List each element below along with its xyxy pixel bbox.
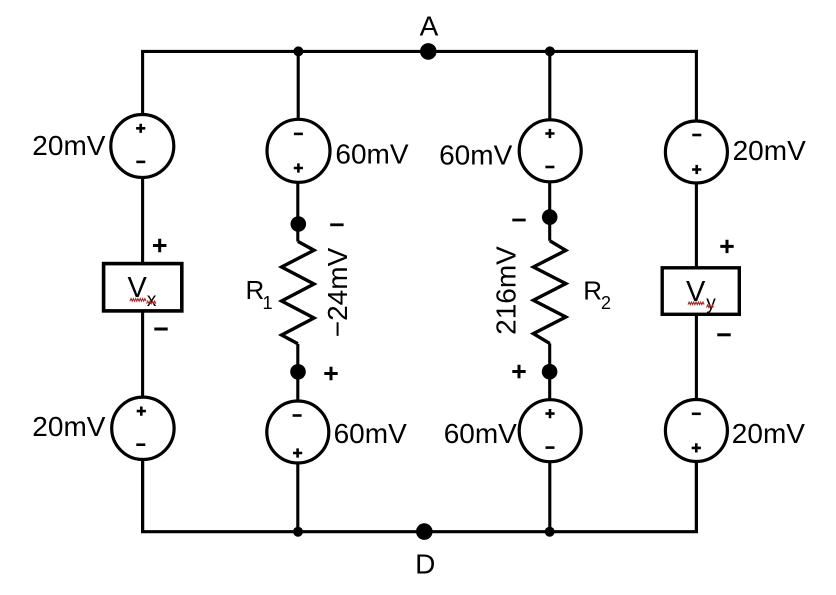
junction dot: top of R2 branch (545, 46, 555, 56)
Vy measurement box (662, 268, 739, 315)
svg-text:1: 1 (263, 293, 273, 313)
V8 minus mark (692, 412, 701, 415)
node dot above R1 (291, 216, 307, 232)
Vx red squiggle under subscript (147, 301, 156, 304)
Vx measurement box (104, 264, 182, 311)
Vy red squiggle under subscript (707, 305, 714, 308)
svg-text:60mV: 60mV (335, 138, 408, 169)
svg-text:−24mV: −24mV (322, 247, 353, 337)
Vy red squiggle (688, 302, 704, 305)
V1 plus mark (136, 124, 145, 133)
Vy plus polarity (720, 240, 733, 253)
svg-text:20mV: 20mV (732, 418, 805, 449)
wire: branch4 upper source to Vy box (695, 183, 698, 268)
node dot below R1 (290, 364, 306, 380)
minus polarity above R1 (330, 223, 343, 226)
V2 minus mark (136, 443, 145, 446)
wire: branch3 top bus to upper source (548, 51, 551, 120)
voltage source V7 top-right 20mV circle (branch4) (665, 121, 727, 183)
V3 minus mark (294, 133, 303, 136)
voltage source V6 lower 60mV circle (branch3) (519, 400, 581, 462)
V8 plus mark (692, 443, 701, 452)
wire: branch4 lower source to bottom bus (695, 462, 698, 532)
V4 plus mark (293, 448, 302, 457)
junction dot: bottom of R2 branch (545, 527, 555, 537)
wire: top bus with branch1 and branch4 corner drops (143, 51, 697, 121)
svg-text:60mV: 60mV (439, 140, 512, 171)
V2 plus mark (137, 407, 146, 416)
svg-text:60mV: 60mV (444, 418, 517, 449)
svg-text:R: R (583, 276, 602, 306)
Vy minus polarity (717, 333, 730, 336)
svg-text:20mV: 20mV (733, 135, 806, 166)
wire: branch3 lower source to bottom bus (548, 462, 551, 532)
voltage source V1 top-left 20mV circle (111, 115, 174, 178)
resistor R2 zigzag (533, 241, 565, 344)
voltage source V5 upper 60mV circle (branch3) (519, 120, 581, 182)
plus polarity below R2 (512, 365, 525, 378)
wire: branch3 upper source to resistor R2 (548, 181, 551, 240)
V6 plus mark (545, 409, 554, 418)
voltage source V3 upper 60mV circle (branch2) (267, 119, 330, 182)
svg-text:A: A (420, 10, 439, 41)
wire: R1 to lower source (296, 344, 299, 402)
V7 plus mark (692, 165, 701, 174)
svg-text:y: y (706, 293, 716, 314)
svg-text:D: D (415, 548, 435, 579)
node dot above R2 (542, 209, 558, 225)
svg-text:216mV: 216mV (491, 246, 522, 335)
wire: branch1 upper source to Vx box (141, 177, 144, 263)
wire: branch2 lower source to bottom bus (296, 463, 299, 532)
svg-text:R: R (246, 275, 265, 305)
node dot below R2 (542, 364, 558, 380)
wire: branch2 top bus to upper source (297, 51, 300, 119)
node D junction dot (416, 523, 433, 540)
Vx minus polarity (154, 328, 167, 331)
resistor R1 zigzag (282, 241, 314, 343)
svg-text:20mV: 20mV (32, 130, 105, 161)
Vx plus polarity (153, 239, 166, 252)
V5 minus mark (545, 166, 554, 169)
wire: branch2 upper source to resistor R1 (296, 182, 299, 241)
wire: bottom bus with branch1 and branch4 corner risers (143, 459, 697, 532)
svg-text:20mV: 20mV (32, 411, 105, 442)
V5 plus mark (545, 129, 554, 138)
plus polarity below R1 (324, 367, 337, 380)
voltage source V8 bottom-right 20mV circle (branch4) (665, 400, 727, 462)
svg-text:x: x (147, 290, 157, 311)
V7 minus mark (692, 134, 701, 137)
V4 minus mark (293, 414, 302, 417)
V1 minus mark (136, 161, 145, 164)
minus polarity above R2 (512, 219, 525, 222)
wire: branch4 Vy box to lower source (695, 314, 698, 400)
voltage source V2 bottom-left 20mV circle (112, 397, 174, 459)
V6 minus mark (546, 446, 555, 449)
svg-text:60mV: 60mV (334, 418, 407, 449)
V3 plus mark (294, 163, 303, 172)
voltage source V4 lower 60mV circle (branch2) (267, 401, 329, 463)
junction dot: top of R1 branch (293, 46, 303, 56)
node A junction dot (420, 43, 437, 60)
junction dot: bottom of R1 branch (293, 527, 303, 537)
wire: R2 to lower source (548, 343, 551, 400)
wire: branch1 lower source to bottom bus (141, 459, 144, 532)
Vx red squiggle (130, 299, 146, 302)
wire: branch1 Vx box to lower source (141, 311, 144, 398)
svg-text:2: 2 (601, 293, 611, 313)
